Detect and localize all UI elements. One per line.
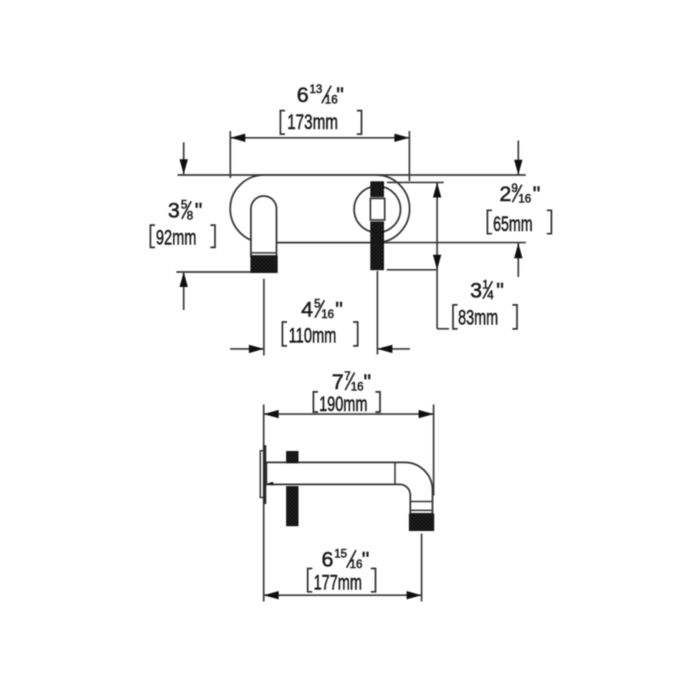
extension line: lever bottom extended right xyxy=(387,269,437,271)
wall plate edge bar (side view) xyxy=(264,445,267,504)
svg-text:65mm: 65mm xyxy=(493,213,532,236)
spout drop joint line 2 (side view) xyxy=(410,509,432,511)
aerator knurl (side view) xyxy=(409,514,433,531)
arrowhead left of 190mm dimension xyxy=(264,410,279,418)
arrowhead right to spout center (110mm) xyxy=(249,345,264,353)
label [83mm] xyxy=(453,305,517,330)
svg-text:13: 13 xyxy=(310,84,323,96)
svg-text:": " xyxy=(496,279,504,303)
spout tube (top view) xyxy=(251,196,277,256)
dimension line 190mm (spout reach) xyxy=(264,413,434,415)
arrowhead left to lever center (110mm) xyxy=(377,345,392,353)
arrowhead right of 173mm dimension xyxy=(394,134,409,142)
label [110mm] xyxy=(282,322,357,348)
label [173mm] xyxy=(280,111,361,135)
handle lever hub (top view) xyxy=(370,198,384,220)
svg-text:4: 4 xyxy=(487,290,494,302)
spout tube joint line (top view) xyxy=(251,252,277,254)
handle lever top knurl (side view) xyxy=(287,452,298,463)
svg-text:83mm: 83mm xyxy=(458,306,498,329)
extension line: lever center down xyxy=(376,271,378,355)
TEXT-LABELS xyxy=(150,83,551,595)
svg-text:6: 6 xyxy=(322,548,334,572)
spout body (side view) xyxy=(266,462,432,513)
svg-text:": " xyxy=(364,370,372,394)
extension line: lever top extended right xyxy=(387,181,444,183)
svg-text:4: 4 xyxy=(301,298,313,322)
label 7 7/16 inch xyxy=(332,370,371,394)
svg-text:7: 7 xyxy=(332,370,344,394)
handle lever top knurl (top view) xyxy=(371,182,384,197)
dimension 92mm upper arrow line xyxy=(183,142,185,174)
svg-text:110mm: 110mm xyxy=(289,325,337,348)
dimension line 177mm (aerator reach) xyxy=(264,594,422,596)
arrowhead down to plate top (65mm) xyxy=(514,160,522,175)
arrowhead left of 177mm dimension xyxy=(264,591,279,599)
label [92mm] xyxy=(150,225,215,250)
extension line: plate bottom edge extended right xyxy=(374,242,526,244)
svg-text:3: 3 xyxy=(168,199,180,223)
extension line: plate right edge up xyxy=(408,131,410,181)
svg-text:16: 16 xyxy=(350,559,363,571)
extension line: plate left edge up xyxy=(229,131,231,178)
leader foot to 83mm text xyxy=(437,328,449,330)
extension line: spout center down xyxy=(263,279,265,356)
label 2 9/16 inch xyxy=(499,182,540,206)
arrowhead left of 173mm dimension xyxy=(230,134,245,142)
extension line: plate top edge extended (left and right) xyxy=(178,174,526,176)
svg-text:": " xyxy=(362,548,370,572)
wall plate face (side view) xyxy=(260,451,263,498)
spout joint line near wall (side view) xyxy=(394,462,396,484)
svg-text:6: 6 xyxy=(297,83,309,107)
handle escutcheon circle (top view) xyxy=(354,186,400,232)
dimension 110mm right arrow line xyxy=(377,348,410,350)
arrowhead up to knurl bottom (92mm) xyxy=(180,272,188,287)
escutcheon plate (top view) xyxy=(230,175,409,243)
dimension 110mm left arrow line xyxy=(230,348,264,350)
svg-text:177mm: 177mm xyxy=(314,572,362,595)
arrowhead right of 177mm dimension xyxy=(407,591,422,599)
extension line: spout knurl bottom extended left xyxy=(176,271,250,273)
spout drop joint line 1 (side view) xyxy=(410,501,432,503)
label 3 1/4 inch xyxy=(470,279,504,303)
svg-text:16: 16 xyxy=(321,309,334,321)
svg-text:": " xyxy=(335,298,343,322)
set screw arrow detail (side view) xyxy=(267,482,274,486)
svg-text:16: 16 xyxy=(518,194,531,206)
svg-text:2: 2 xyxy=(499,182,511,206)
arrowhead right of 190mm dimension xyxy=(419,410,434,418)
label 6 13/16 inch xyxy=(297,83,344,107)
label 3 5/8 inch xyxy=(168,199,202,223)
dimension line 83mm (lever length) xyxy=(436,183,438,329)
dimension 92mm lower arrow line xyxy=(183,272,185,310)
svg-text:15: 15 xyxy=(334,548,347,560)
svg-text:92mm: 92mm xyxy=(156,227,197,250)
label 4 5/16 inch xyxy=(301,298,343,322)
extension line: aerator center vertical xyxy=(421,534,423,602)
svg-text:": " xyxy=(195,199,203,223)
handle lever bottom knurl (side view) xyxy=(287,487,298,526)
dimension 65mm upper arrow line xyxy=(517,141,519,175)
svg-text:173mm: 173mm xyxy=(287,111,338,134)
arrowhead down to plate top (92mm) xyxy=(180,159,188,174)
svg-text:3: 3 xyxy=(470,279,482,303)
extension line: wall face vertical xyxy=(263,405,265,602)
label [177mm] xyxy=(308,569,376,595)
svg-text:16: 16 xyxy=(351,382,364,394)
dimension line 173mm (plate width) xyxy=(230,137,409,139)
label 6 15/16 inch xyxy=(322,548,370,572)
svg-text:8: 8 xyxy=(187,211,193,223)
label [65mm] xyxy=(487,210,551,236)
dimension 65mm lower arrow line xyxy=(517,243,519,277)
label [190mm] xyxy=(313,392,380,416)
arrowhead down to lever bottom (83mm) xyxy=(433,255,441,270)
spout aerator knurl (top view) xyxy=(251,256,277,273)
arrowhead up to lever top (83mm) xyxy=(433,183,441,198)
svg-text:190mm: 190mm xyxy=(319,393,367,416)
arrowhead up to plate bottom (65mm) xyxy=(514,243,522,258)
handle lever bottom knurl (top view) xyxy=(371,222,384,270)
extension line: spout outer edge vertical xyxy=(433,405,435,496)
svg-text:": " xyxy=(533,182,541,206)
svg-text:": " xyxy=(336,83,344,107)
